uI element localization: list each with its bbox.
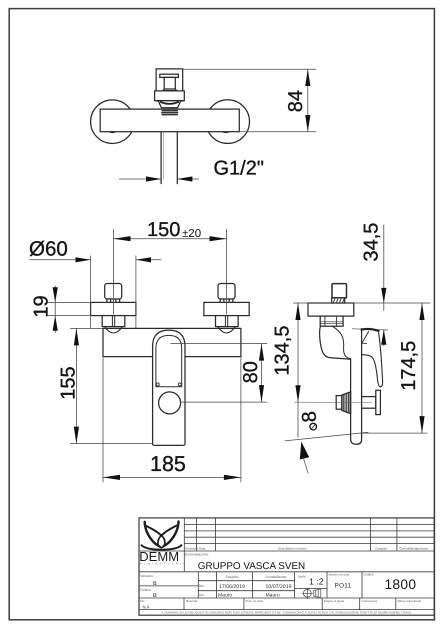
side view: handle top cap (362, 329, 379, 331)
front view: right nut bottom arc (218, 327, 236, 333)
front view: spout inner panel (156, 335, 182, 386)
dim 174,5: dimension line (421, 303, 423, 433)
dim 134,5: dimension line (297, 303, 299, 437)
dim G1/2: arrows (146, 176, 161, 181)
bottom row line (139, 597, 434, 599)
side view: diverter pull knob cap (336, 396, 342, 410)
top view: left wall-mount circle (91, 100, 135, 144)
logo cell border (183, 518, 185, 572)
svg-text:1800: 1800 (384, 577, 416, 592)
side view: valve body inner curve (333, 326, 353, 359)
title block outer border (139, 518, 434, 615)
top view: T-handle stem (164, 77, 175, 89)
side view: flange top extension line (294, 302, 431, 304)
bottom row columns (184, 598, 396, 610)
svg-text:File: File (140, 599, 145, 603)
denomination row line (139, 571, 434, 573)
projection symbol (302, 588, 321, 599)
svg-text:10/07/2019: 10/07/2019 (266, 584, 292, 590)
svg-text:134,5: 134,5 (271, 326, 293, 376)
front view: right knob legs (220, 299, 233, 302)
dim 134,5: arrows (295, 303, 300, 320)
svg-text:174,5: 174,5 (398, 341, 420, 391)
side view: hex nut (320, 316, 343, 326)
dim 155: extension lines (71, 328, 152, 443)
DEMM logo central teardrop (158, 535, 165, 547)
DEMM logo left wing outer stroke (145, 522, 160, 547)
svg-text:19: 19 (30, 295, 52, 317)
svg-text:Mauro: Mauro (218, 592, 232, 598)
dim Ø60: arrows (76, 257, 91, 262)
top view: right screw notch (222, 132, 231, 133)
dim 174,5: extension line (363, 432, 428, 434)
front view: left knob (105, 284, 122, 300)
front view: inner panel screws (156, 383, 159, 386)
svg-text:Eseguito: Eseguito (376, 547, 388, 551)
top view: mid block bottom dip (155, 101, 185, 103)
svg-text:GRUPPO VASCA SVEN: GRUPPO VASCA SVEN (198, 561, 305, 572)
side view: handle lever blade (362, 331, 383, 387)
dim 19: extension lines (48, 302, 90, 315)
front view: left hex nut (102, 316, 125, 327)
svg-text:Versione: Versione (140, 574, 153, 578)
top view: collar rings below body edge (162, 111, 178, 115)
dim 84: dimension line (307, 69, 309, 131)
side view: handle neck facets (362, 331, 369, 343)
front view: spout outer panel (153, 330, 185, 445)
side view: knob hatched stem (332, 298, 345, 303)
side view: valve body outer profile (320, 326, 351, 359)
svg-text:±20: ±20 (182, 228, 201, 240)
top view: dome dark arc (161, 102, 178, 104)
dim 80: dimension line (261, 344, 263, 403)
mid band columns (198, 572, 362, 598)
DEMM logo smile (142, 545, 182, 550)
mid band sub rows (139, 581, 327, 591)
svg-text:B: B (153, 581, 157, 587)
dim 84: arrows (305, 69, 310, 86)
svg-text:Scala: Scala (298, 575, 306, 579)
side view: handle top extension line (353, 329, 388, 330)
svg-text:Peso ns parte: Peso ns parte (246, 599, 264, 603)
dim 155: dimension line (75, 328, 77, 443)
svg-text:Dis.: Dis. (199, 584, 205, 588)
side view: diverter knob (332, 284, 347, 298)
dim 19: arrows (53, 287, 58, 302)
svg-text:B: B (153, 593, 157, 599)
svg-text:Mauro: Mauro (266, 592, 280, 598)
front view: left knob legs (107, 299, 120, 302)
svg-text:Materiale: Materiale (186, 599, 198, 603)
dim 150: extension lines (114, 230, 227, 315)
top view: T-handle flare (163, 89, 177, 91)
dim Ø60: dimension lines (30, 259, 161, 261)
svg-text:Codice: Codice (364, 572, 374, 576)
svg-text:Eseguito: Eseguito (226, 575, 239, 579)
front view: right knob (218, 284, 235, 300)
dim 150: dimension line (114, 238, 227, 240)
svg-text:185: 185 (150, 452, 186, 476)
dim 185: dimension line (103, 476, 241, 478)
front view: right flange plate (204, 302, 249, 315)
side view: hose connector cap (376, 390, 381, 414)
dim 150: arrows (114, 236, 131, 241)
svg-text:1 :2: 1 :2 (309, 577, 324, 587)
svg-text:Informazioni: Informazioni (362, 599, 378, 603)
top view: right wall-mount circle (206, 100, 250, 144)
revision table columns (197, 518, 397, 551)
svg-text:150: 150 (147, 219, 180, 241)
svg-text:G1/2": G1/2" (214, 158, 264, 180)
top view: left screw notch (108, 132, 117, 133)
dim 34,5: arrows (381, 288, 386, 303)
front view: left nut bottom arc (105, 327, 123, 333)
side view: knob centerline (295, 401, 372, 403)
disclaimer row line (139, 609, 434, 611)
svg-text:Controllato/approvato: Controllato/approvato (400, 547, 429, 551)
dim G1/2: dimension lines (120, 178, 199, 180)
svg-text:A TERMINE DI LEGGE QUESTO DISE: A TERMINE DI LEGGE QUESTO DISEGNO NON PU… (161, 611, 411, 615)
front view: body (103, 328, 241, 356)
dim 80: extension lines (171, 344, 267, 403)
dim 34,5: dimension line (383, 225, 385, 346)
svg-text:80: 80 (240, 361, 262, 383)
dim ø8: leader arrow (300, 442, 309, 460)
top view: dome collar (158, 101, 181, 108)
DEMM logo left wing inner stroke (147, 526, 162, 536)
svg-text:8: 8 (298, 410, 321, 423)
side view: diverter pull knob knurl (342, 392, 351, 414)
svg-text:Difesa superficiale: Difesa superficiale (398, 599, 422, 603)
side view: hose connector stem (362, 397, 376, 409)
dim 174,5: arrows (419, 303, 424, 320)
svg-text:Revisione: Revisione (185, 547, 199, 551)
revision table rows (139, 525, 434, 551)
dim 84: extension lines (183, 69, 316, 131)
dim 185: extension lines (103, 358, 241, 482)
side view: flange disc edge (308, 303, 354, 316)
svg-text:34,5: 34,5 (360, 223, 382, 262)
svg-text:Denominazione: Denominazione (185, 553, 209, 557)
dim ø8: slanted face line (285, 432, 368, 441)
front view: left flange plate (91, 302, 136, 315)
svg-text:84: 84 (285, 90, 307, 112)
DEMM logo right wing outer stroke (164, 521, 179, 546)
top view: mid block (155, 91, 185, 101)
svg-text:Descrizione revisione: Descrizione revisione (278, 547, 307, 551)
dim 185: arrows (103, 475, 120, 480)
svg-text:Data: Data (199, 547, 206, 551)
svg-text:155: 155 (58, 366, 80, 399)
DEMM logo right wing inner stroke (162, 526, 177, 536)
top view: cartridge square bracket (156, 69, 183, 91)
top view: T-handle bar (160, 74, 179, 77)
svg-text:Contabilizzato: Contabilizzato (266, 575, 287, 579)
svg-text:Ø60: Ø60 (29, 238, 68, 261)
svg-text:R U B I N E T T E R I E: R U B I N E T T E R I E (140, 563, 187, 566)
top view: outlet pipe (161, 132, 177, 184)
side view: spout tube (351, 329, 362, 445)
front view: outlet circle (159, 392, 181, 414)
svg-text:Ver.: Ver. (199, 593, 205, 597)
svg-text:Numero ns carta: Numero ns carta (329, 573, 350, 577)
svg-text:Finitura: Finitura (140, 588, 151, 592)
dim ø8: leader tail (303, 458, 308, 473)
svg-text:Pagina di quota: Pagina di quota (324, 599, 344, 603)
dim 19: dimension line (54, 286, 56, 333)
dim 155: arrows (74, 328, 79, 345)
dim 80: arrows (259, 344, 264, 361)
svg-text:N.A: N.A (143, 604, 150, 609)
front view: right hex nut (216, 316, 239, 327)
svg-text:17/06/2019: 17/06/2019 (219, 584, 245, 590)
top view: mixer body (100, 109, 239, 132)
dim Ø60: extension lines (91, 256, 136, 328)
svg-text:PO11: PO11 (335, 582, 352, 589)
